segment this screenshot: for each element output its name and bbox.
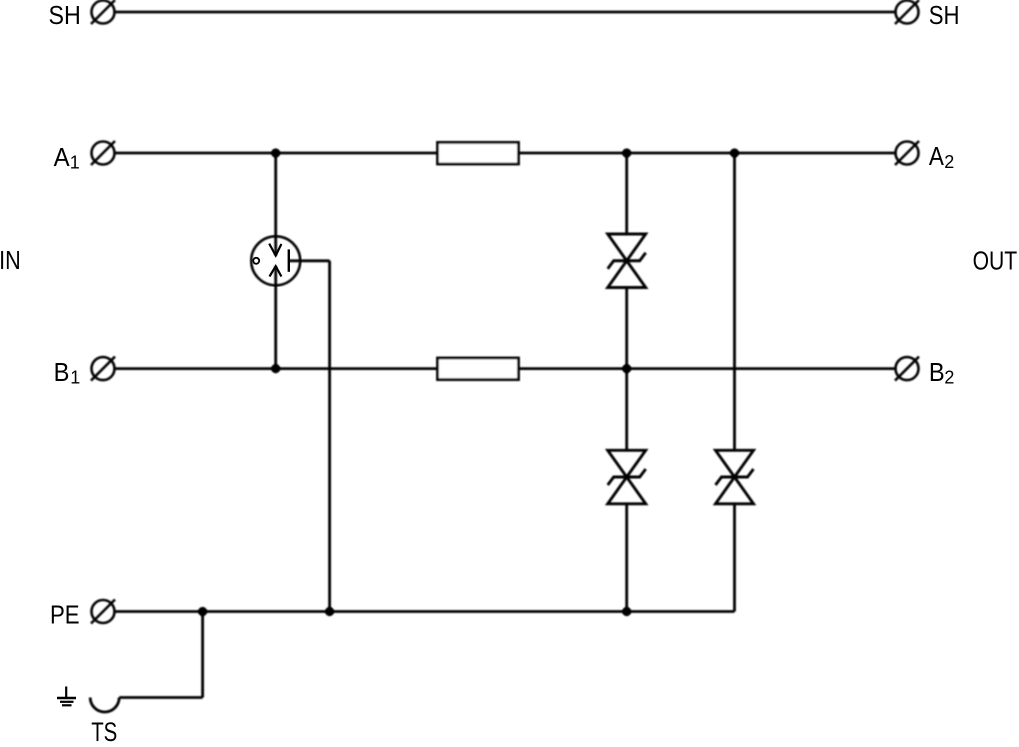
svg-text:1: 1 bbox=[70, 152, 80, 172]
svg-text:TS: TS bbox=[91, 717, 117, 747]
svg-text:2: 2 bbox=[944, 152, 954, 172]
svg-text:1: 1 bbox=[70, 367, 80, 387]
svg-text:2: 2 bbox=[944, 367, 954, 387]
svg-text:A: A bbox=[929, 141, 945, 171]
svg-text:B: B bbox=[54, 357, 70, 387]
svg-text:B: B bbox=[929, 357, 945, 387]
svg-text:SH: SH bbox=[929, 0, 960, 30]
svg-text:PE: PE bbox=[50, 599, 80, 629]
svg-text:A: A bbox=[54, 142, 71, 172]
svg-text:SH: SH bbox=[49, 0, 81, 30]
svg-text:OUT: OUT bbox=[973, 245, 1018, 275]
svg-text:IN: IN bbox=[0, 245, 21, 275]
